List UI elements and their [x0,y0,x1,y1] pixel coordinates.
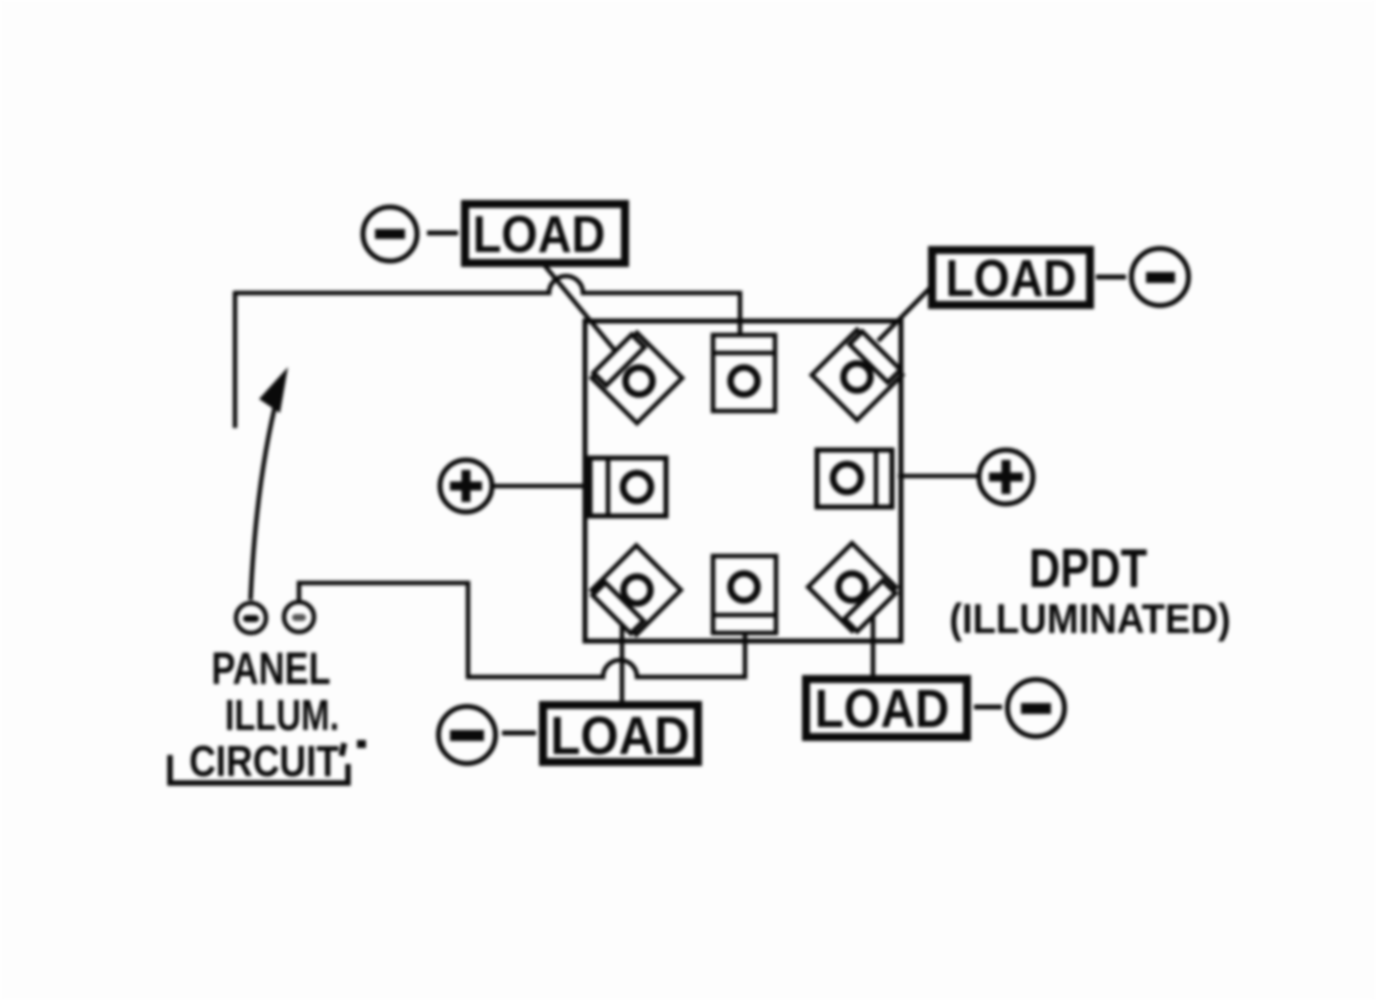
wire TR tab to LOAD2 [878,288,930,341]
wire LOAD1 to lamp tab TL [545,266,617,353]
wire dash LOAD2 to minus [1096,275,1126,280]
switch body DPDT [585,321,901,641]
svg-text:ILLUM.: ILLUM. [225,691,339,740]
load box L2 top-right [932,250,1090,308]
wire dash minus to LOAD3 [502,731,536,736]
wire BR diamond to LOAD4 [871,616,876,675]
terminal TC square with tab [713,335,775,411]
terminal BC square with tab [713,556,776,633]
terminal ML square with tab [590,458,666,516]
svg-text:PANEL: PANEL [211,643,330,694]
terminal MR square with tab [817,450,892,507]
minus terminal circle top-left [363,207,417,261]
minus terminal circle bottom-right [1008,680,1065,737]
wire panel pole to top-center terminal with hop over [234,276,740,340]
wire dash minus to LOAD1 [427,231,458,236]
wire BL diamond to LOAD3 [620,618,625,701]
terminal TL diamond [592,333,683,424]
label DPDT (ILLUMINATED) [949,537,1231,642]
svg-text:LOAD: LOAD [473,206,606,264]
minus terminal circle top-right [1132,249,1189,306]
wire MR terminal to right plus [898,474,978,479]
wire dash LOAD4 to minus [974,705,1002,710]
svg-text:LOAD: LOAD [945,250,1076,308]
minus terminal circle bottom-center [439,707,496,764]
svg-text:CIRCUIT: CIRCUIT [189,736,339,786]
load box L4 bottom-right [806,678,967,739]
label PANEL ILLUM. CIRCUIT [189,643,366,786]
footnote bracket [170,755,348,783]
svg-text:LOAD: LOAD [815,678,950,739]
panel illum terminal A [236,603,266,633]
plus terminal circle left [440,460,492,512]
terminal BR diamond [808,543,896,631]
svg-text:LOAD: LOAD [550,705,689,766]
panel illum terminal B [284,602,314,632]
plus terminal circle right [979,450,1033,504]
svg-text:(ILLUMINATED): (ILLUMINATED) [949,595,1231,642]
svg-text:DPDT: DPDT [1029,537,1147,599]
arrow switch actuator [251,367,289,600]
terminal BL diamond [592,545,681,634]
load box L1 top-left [465,204,625,264]
wire left plus to ML terminal [494,484,592,489]
terminal TR diamond [812,330,903,421]
load box L3 bottom-center [543,705,698,766]
wire panel terminal B to bottom-center terminal with hop [299,583,745,677]
wire switch pole stub vertical [233,291,238,428]
